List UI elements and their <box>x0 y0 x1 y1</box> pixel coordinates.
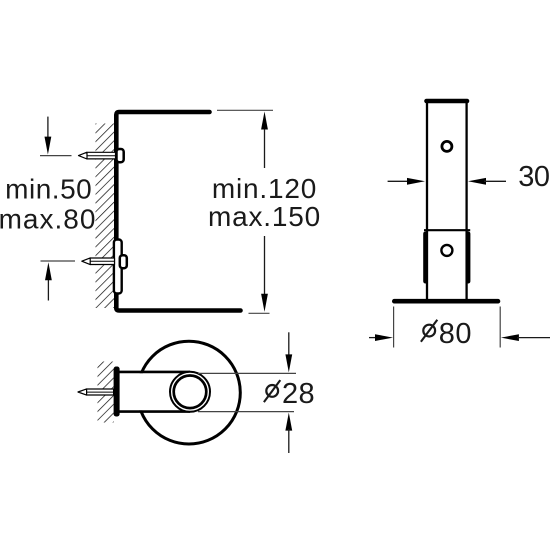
rose big circle <box>138 341 241 444</box>
sleeve left bar <box>423 232 428 284</box>
right dimension line with arrows <box>261 112 268 312</box>
base plate <box>394 299 498 304</box>
tube outer circle (o28 cross-section) <box>170 372 210 412</box>
label min.50 <box>5 174 92 205</box>
svg-text:80: 80 <box>439 318 472 350</box>
wall hatching (side view) <box>96 124 116 309</box>
dim 30 right arrow <box>468 178 506 185</box>
wall plate (top view) <box>114 367 120 417</box>
wall hatching (top view) <box>98 362 114 423</box>
tube extension line top <box>198 372 296 374</box>
upper clip on bracket <box>117 149 124 162</box>
lower clip on backplate <box>120 255 127 268</box>
label min.120 <box>212 173 317 204</box>
bracket C-profile (side view) <box>116 112 240 311</box>
label max.150 <box>208 201 321 232</box>
sleeve right bar <box>466 232 471 284</box>
dim o80 right arrow <box>501 334 550 341</box>
dim o80 left arrow <box>369 334 393 341</box>
dim o28 bottom arrow <box>285 413 292 453</box>
label max.80 <box>0 204 96 235</box>
base extension line left <box>393 307 395 348</box>
svg-text:min.120: min.120 <box>212 173 317 204</box>
tube inner circle (tube wall) <box>174 376 207 409</box>
left dimension lower arrow <box>45 262 52 300</box>
svg-text:max.150: max.150 <box>208 201 321 232</box>
svg-text:max.80: max.80 <box>0 204 96 235</box>
label 30 <box>518 161 549 193</box>
left dimension extension line lower <box>41 260 76 262</box>
post top cap <box>427 99 468 104</box>
right dimension extension line top <box>217 109 273 111</box>
left dimension upper arrow <box>45 117 52 155</box>
dim 30 left arrow <box>388 178 425 185</box>
lower slide backplate <box>114 240 122 294</box>
post column sides <box>427 101 467 299</box>
base extension line right <box>499 307 501 348</box>
svg-text:30: 30 <box>518 161 549 193</box>
label diameter 28 <box>264 378 315 410</box>
right dimension extension line bottom <box>249 312 270 314</box>
tube extension line bottom <box>198 411 294 413</box>
screw (top view) <box>78 389 114 395</box>
sleeve top edge <box>424 229 470 231</box>
lower screw <box>82 258 115 265</box>
dim o28 top arrow <box>285 332 292 372</box>
left dimension extension line upper <box>40 155 72 157</box>
lower hole <box>441 245 452 256</box>
label diameter 80 <box>421 318 472 350</box>
svg-text:28: 28 <box>282 378 315 410</box>
upper screw <box>79 152 116 159</box>
upper hole <box>442 141 452 151</box>
svg-text:min.50: min.50 <box>5 174 92 205</box>
tube body (top view) <box>117 372 190 412</box>
